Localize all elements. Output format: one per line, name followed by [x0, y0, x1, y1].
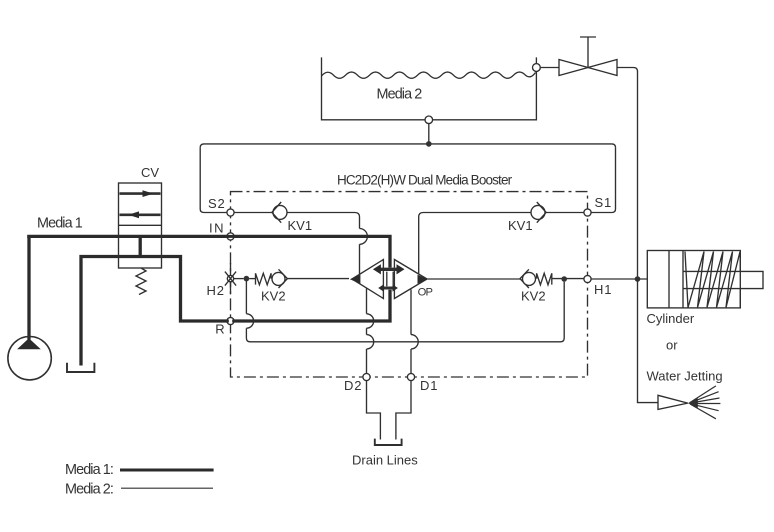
wire drain lines below — [367, 381, 412, 440]
booster piston symbol — [350, 260, 428, 299]
svg-text:Media 2: Media 2 — [377, 86, 423, 102]
svg-text:S2: S2 — [208, 196, 226, 211]
node tank top circle — [533, 64, 541, 72]
node junction cylinder feed — [635, 276, 641, 282]
node H1 — [584, 275, 591, 282]
booster right triangle — [394, 260, 427, 299]
svg-text:Media 1:: Media 1: — [65, 462, 113, 478]
cylinder actuator — [647, 251, 763, 308]
node D2 — [363, 373, 370, 380]
svg-text:KV2: KV2 — [261, 289, 286, 304]
hop D2 over R line — [367, 314, 374, 328]
check valve KV2 left with spring — [249, 269, 349, 288]
Media 1 thick circuit — [27, 236, 390, 365]
svg-text:S1: S1 — [595, 195, 613, 210]
wire return drop / R line — [81, 257, 390, 366]
booster upper arrow — [380, 268, 399, 271]
hop D1 over OP line — [411, 335, 418, 349]
svg-text:D2: D2 — [344, 378, 362, 393]
booster neck rod outline — [387, 272, 393, 287]
svg-text:KV1: KV1 — [508, 218, 533, 233]
valve CV body — [119, 183, 162, 268]
wire pump riser — [27, 236, 30, 339]
wire H1 to cylinder — [591, 278, 647, 280]
booster right apex arrowhead — [418, 275, 428, 284]
node tank outlet — [425, 116, 433, 124]
CV spring — [136, 268, 146, 295]
svg-text:HC2D2(H)W Dual Media Booster: HC2D2(H)W Dual Media Booster — [337, 173, 513, 188]
node S1 — [584, 209, 591, 216]
svg-text:R: R — [215, 322, 224, 337]
drain funnel — [375, 439, 402, 445]
svg-text:D1: D1 — [420, 378, 438, 393]
wire left drop to S2 — [200, 148, 227, 213]
check valve KV1 right — [531, 202, 546, 223]
svg-text:KV2: KV2 — [521, 289, 546, 304]
wire to water jet nozzle — [638, 279, 659, 403]
wire S1 to right KV1 to booster — [419, 213, 584, 275]
pump P — [8, 337, 51, 380]
check valve KV1 left — [272, 202, 287, 223]
port H2 plugged — [225, 263, 244, 294]
wire top distribution — [200, 144, 615, 148]
booster lower arrow — [382, 287, 394, 290]
svg-text:Drain Lines: Drain Lines — [352, 453, 418, 468]
hop OP wire over R line — [246, 314, 253, 328]
wire tank outlet down — [428, 124, 430, 144]
svg-text:Cylinder: Cylinder — [647, 311, 695, 326]
svg-text:H1: H1 — [594, 282, 612, 297]
reservoir tank symbol — [67, 363, 94, 372]
check valve KV2 right with spring — [428, 269, 584, 288]
node junction H2 side — [244, 276, 250, 282]
wire D2 drain from booster — [366, 288, 368, 373]
node R — [227, 317, 234, 324]
CV arrow left — [120, 211, 161, 218]
wire D1 drain from booster — [410, 289, 412, 373]
svg-text:or: or — [666, 338, 678, 353]
node IN — [227, 233, 234, 240]
booster left triangle — [352, 260, 383, 299]
svg-text:Media 1: Media 1 — [37, 216, 83, 232]
tank Media 2 — [322, 57, 537, 119]
hop D2 over OP line — [367, 335, 374, 349]
booster left apex arrowhead — [350, 275, 361, 284]
wire S2 to left KV1 to booster — [234, 213, 360, 275]
booster enclosure (dash-dot box) — [231, 192, 588, 377]
svg-text:OP: OP — [418, 286, 433, 298]
svg-text:IN: IN — [209, 221, 225, 236]
water jet nozzle — [658, 386, 720, 419]
svg-text:Water Jetting: Water Jetting — [647, 369, 723, 384]
wire main pressure line — [27, 236, 390, 267]
svg-text:KV1: KV1 — [288, 218, 313, 233]
svg-text:Media 2:: Media 2: — [65, 482, 113, 498]
CV arrow right — [120, 190, 161, 197]
node S2 — [227, 209, 234, 216]
shut-off valve V1 — [540, 37, 638, 279]
wire OP pilot line — [246, 281, 564, 342]
node junction H1 side — [561, 276, 567, 282]
wire right drop to S1 — [591, 148, 615, 213]
wire CV internal stub — [139, 236, 142, 256]
svg-text:CV: CV — [141, 165, 159, 180]
node junction top — [426, 141, 432, 147]
node D1 — [407, 373, 414, 380]
svg-text:H2: H2 — [207, 283, 225, 298]
hop S2 wire over IN line — [360, 229, 368, 245]
